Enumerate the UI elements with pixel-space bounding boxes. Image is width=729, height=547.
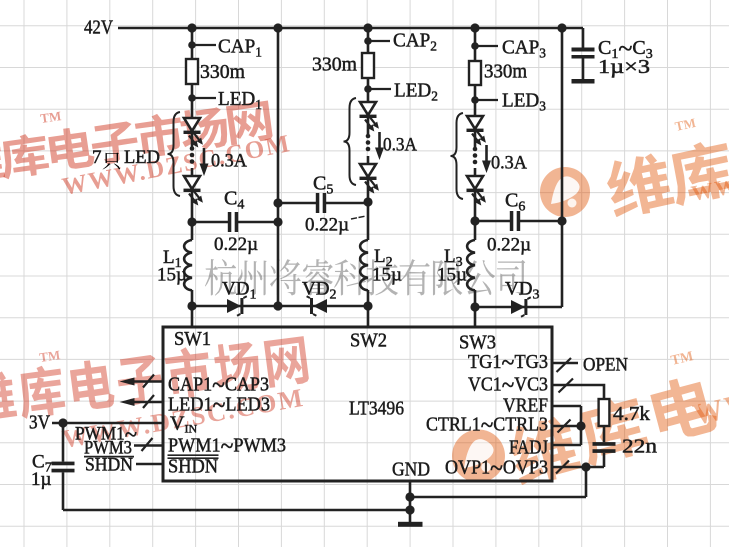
- dashed LED string continuation ch1: [190, 146, 195, 151]
- LED D3b: [467, 176, 483, 189]
- node LED1 tap: [188, 94, 196, 102]
- dashed LED string continuation ch3: [473, 147, 478, 152]
- wire C8 to OVP: [603, 453, 606, 467]
- node C5 left: [273, 198, 282, 207]
- svg-text:330m: 330m: [312, 54, 357, 76]
- wire GND pin: [409, 481, 412, 522]
- wire C1-C3 branch: [582, 28, 585, 80]
- node SW3 / VD3 anode: [470, 302, 479, 311]
- wire VD3: [475, 306, 562, 309]
- LED D1b: [184, 176, 200, 189]
- node SW1 / VD1 anode: [187, 301, 196, 310]
- wire VC1~VC3 to R4: [552, 385, 604, 399]
- svg-text:CTRL1~​CTRL3: CTRL1~​CTRL3: [426, 411, 548, 440]
- svg-text:TM: TM: [670, 349, 695, 369]
- svg-text:C5: C5: [313, 173, 333, 198]
- capacitor C6: [510, 211, 514, 231]
- svg-text:330m: 330m: [484, 61, 527, 83]
- wire PWM bus: [134, 444, 164, 446]
- svg-text:0.22µ: 0.22µ: [305, 215, 349, 236]
- svg-text:C4: C4: [224, 188, 244, 213]
- brace 7 LEDs ch2: [344, 98, 357, 185]
- op-amp/IC U1 LT3496 box: [163, 327, 552, 481]
- node top rail / C4 riser: [273, 23, 282, 32]
- svg-text:OVP1~​OVP3: OVP1~​OVP3: [445, 454, 548, 483]
- wire VREF-CTRL-FADJ tie: [580, 406, 583, 445]
- svg-text:CAP3: CAP3: [502, 37, 546, 62]
- diode VD1: [227, 299, 241, 313]
- capacitor C7 1u: [62, 423, 65, 462]
- wire CAP1~CAP3 bus arrow: [132, 380, 164, 382]
- svg-text:LED1: LED1: [218, 88, 262, 113]
- bus slash OVP: [556, 461, 569, 474]
- wire OVP1~OVP3: [552, 466, 604, 468]
- brace 7 LEDs ch1: [168, 112, 181, 196]
- wire VD2: [278, 305, 368, 308]
- svg-text:SW1: SW1: [174, 328, 211, 350]
- node LED2 bottom / C5 / L2: [363, 197, 372, 206]
- arrow 0.3A ch1: [203, 148, 206, 165]
- wire CAP3 tick: [475, 45, 498, 47]
- svg-text:0.22µ: 0.22µ: [214, 234, 258, 255]
- brace 7 LEDs ch3: [451, 113, 464, 199]
- node top rail / channel1: [187, 23, 196, 32]
- node top rail / C6 riser: [557, 23, 566, 32]
- watermark overlay (site logos and company name): [0, 138, 5, 186]
- svg-text:C6: C6: [505, 190, 525, 215]
- wire CAP1 tick: [192, 44, 216, 46]
- node CTRL tie: [576, 421, 585, 430]
- node VD1 cathode / riser: [273, 301, 282, 310]
- LED D3a: [467, 116, 483, 129]
- ground symbol: [398, 522, 423, 527]
- node OVP / GND return: [581, 462, 590, 471]
- arrow 0.3A ch3: [485, 145, 488, 162]
- svg-text:1µ×3: 1µ×3: [598, 56, 650, 78]
- svg-text:LED: LED: [124, 147, 160, 168]
- node GND / bottom rail: [405, 505, 414, 514]
- svg-text:0.3A: 0.3A: [211, 151, 247, 172]
- svg-text:CAP1: CAP1: [218, 36, 262, 61]
- svg-text:LED2: LED2: [394, 80, 438, 105]
- capacitor C1~C3 1u x3: [572, 48, 595, 52]
- resistor R1 330m: [186, 59, 198, 84]
- capacitor C4: [228, 212, 232, 232]
- diode VD2: [313, 299, 327, 313]
- node top rail / channel3: [470, 23, 479, 32]
- svg-text:330m: 330m: [200, 61, 245, 83]
- svg-text:0.22µ: 0.22µ: [487, 235, 531, 256]
- wire R4 to C8: [603, 426, 606, 442]
- resistor R4 4.7k: [599, 399, 610, 426]
- wire rail riser x562: [561, 28, 564, 307]
- wire C6 left: [475, 220, 510, 223]
- node LED1 bottom / C4 / L1: [187, 217, 196, 226]
- bus slash CAP pins: [143, 375, 154, 388]
- diode VD3: [511, 300, 525, 314]
- svg-text:CAP2: CAP2: [393, 30, 437, 55]
- dashed LED string continuation ch2: [366, 134, 371, 139]
- wire 42V top supply rail: [118, 27, 583, 30]
- svg-text:GND: GND: [392, 459, 430, 481]
- svg-text:22n: 22n: [622, 436, 657, 458]
- bus slash PWM: [142, 438, 153, 451]
- LED D1a: [184, 118, 200, 131]
- node top rail / channel2: [363, 23, 372, 32]
- svg-text:0.3A: 0.3A: [491, 153, 527, 174]
- svg-text:OPEN: OPEN: [583, 355, 628, 376]
- svg-text:15µ: 15µ: [437, 265, 467, 286]
- wire C6 right: [520, 220, 562, 223]
- wire 3V to VIN: [52, 422, 164, 425]
- wire C4 right: [238, 221, 278, 224]
- wire rail riser x278: [277, 28, 280, 306]
- svg-text:LT3496: LT3496: [349, 398, 404, 420]
- wire channel2 vertical: [367, 28, 370, 202]
- wire LED3 tick: [475, 99, 498, 101]
- node LED3 bottom / C6 / L3: [470, 216, 479, 225]
- svg-text:0.3A: 0.3A: [383, 135, 417, 156]
- svg-text:15µ: 15µ: [372, 265, 402, 286]
- wire C5 left: [278, 202, 316, 205]
- svg-text:SHDN: SHDN: [85, 455, 133, 476]
- bus slash VC: [559, 379, 574, 393]
- wire LED1 tick: [192, 97, 216, 99]
- svg-text:TM: TM: [38, 347, 61, 365]
- inductor L3 15u: [474, 221, 477, 240]
- wire bottom return rail: [63, 509, 410, 512]
- node C4/rail riser: [273, 217, 282, 226]
- LED D2a: [360, 102, 376, 115]
- bus slash CTRL: [558, 420, 571, 433]
- resistor R3 330m: [469, 61, 481, 85]
- node GND / OVP return: [405, 492, 414, 501]
- inductor L2 15u: [367, 202, 370, 240]
- bus slash LED pins: [143, 395, 154, 408]
- wire channel3 vertical: [474, 28, 477, 221]
- svg-text:7: 7: [92, 147, 102, 168]
- capacitor C5: [316, 193, 320, 213]
- wire channel1 vertical: [191, 28, 194, 222]
- capacitor C8 22n: [593, 442, 616, 446]
- wire SHDN external: [136, 463, 164, 465]
- node CAP3 tap: [471, 42, 479, 50]
- wire TG1~TG3 open: [552, 362, 578, 364]
- bus slash TG: [557, 358, 572, 372]
- svg-text:42V: 42V: [84, 17, 113, 39]
- svg-text:FADJ: FADJ: [509, 437, 548, 459]
- node C6 right / riser: [557, 216, 566, 225]
- wire LED2 tick: [368, 88, 391, 90]
- svg-text:LED3: LED3: [502, 90, 546, 115]
- svg-text:SW2: SW2: [350, 330, 387, 352]
- wire LED1~LED3 bus arrow: [132, 401, 164, 403]
- wire GND to OVP network: [410, 467, 586, 497]
- svg-text:TM: TM: [674, 115, 698, 134]
- svg-text:3V: 3V: [29, 412, 50, 434]
- svg-text:15µ: 15µ: [157, 265, 187, 286]
- wire VREF: [552, 405, 581, 408]
- svg-text:VD3: VD3: [505, 279, 539, 303]
- node CAP2 tap: [364, 37, 372, 45]
- arrow 0.3A ch2: [378, 132, 381, 149]
- node LED2 tap: [364, 85, 372, 93]
- svg-text:VD1: VD1: [222, 279, 256, 303]
- resistor R2 330m: [362, 53, 374, 78]
- wire CAP2 tick: [368, 40, 390, 42]
- node SW2 / VD2 anode: [363, 301, 372, 310]
- svg-text:4.7k: 4.7k: [613, 403, 650, 425]
- svg-text:TM: TM: [39, 108, 62, 126]
- node 3V / C7: [58, 418, 67, 427]
- node CAP1 tap: [188, 41, 196, 49]
- wire C5 right: [326, 202, 368, 205]
- wire C4 left: [192, 221, 228, 224]
- inductor L1 15u: [191, 222, 194, 240]
- svg-text:1µ: 1µ: [31, 469, 52, 490]
- wire FADJ: [552, 444, 581, 447]
- node LED3 tap: [471, 96, 479, 104]
- wire CTRL1~CTRL3: [552, 425, 581, 427]
- LED D2b: [360, 164, 376, 177]
- wire VD1: [192, 305, 278, 308]
